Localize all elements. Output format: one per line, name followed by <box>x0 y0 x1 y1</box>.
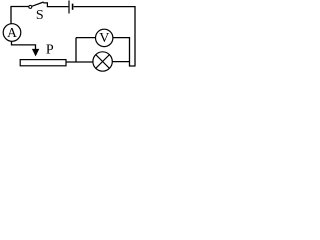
wire lamp to right vertical <box>112 61 130 63</box>
wire right vertical <box>134 6 136 66</box>
wire ammeter bottom to wiper <box>12 41 36 50</box>
wire top-left corner to switch <box>11 7 29 24</box>
svg-text:S: S <box>36 8 44 23</box>
wire bottom-right jog <box>130 62 136 66</box>
label S <box>36 8 44 23</box>
battery cell <box>69 1 73 14</box>
svg-text:V: V <box>99 31 109 46</box>
voltmeter V <box>96 29 113 46</box>
wire voltmeter branch right <box>113 38 130 62</box>
lamp <box>93 52 112 71</box>
rheostat wiper arrow <box>32 49 38 56</box>
ammeter A <box>3 24 21 42</box>
rheostat body <box>20 60 66 66</box>
svg-text:P: P <box>46 43 54 58</box>
wire switch to battery <box>47 6 69 8</box>
wire rheostat to lamp <box>66 61 93 63</box>
label P <box>46 43 54 58</box>
svg-text:A: A <box>7 25 17 40</box>
switch S <box>29 2 48 8</box>
wire voltmeter branch left <box>76 37 96 39</box>
wire voltmeter-loop left vertical <box>75 38 77 62</box>
wire battery to top-right corner <box>74 6 135 8</box>
